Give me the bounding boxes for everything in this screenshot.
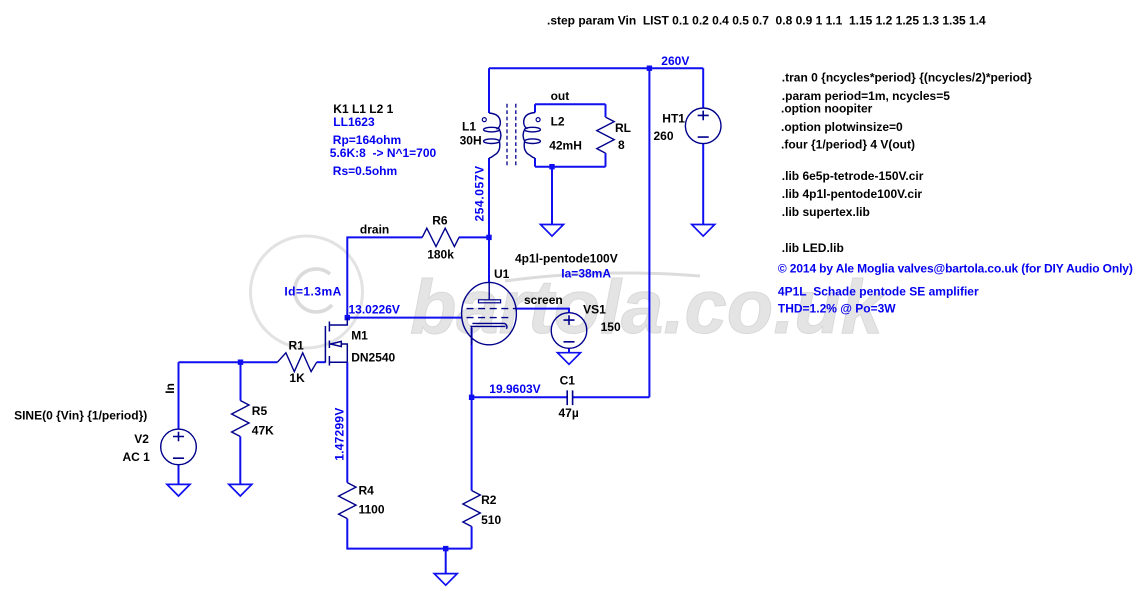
svg-text:260V: 260V	[661, 54, 689, 68]
svg-text:VS1: VS1	[583, 302, 606, 316]
svg-text:Ia=38mA: Ia=38mA	[561, 266, 611, 280]
svg-text:510: 510	[481, 513, 501, 527]
svg-text:150: 150	[601, 320, 621, 334]
svg-text:DN2540: DN2540	[351, 351, 395, 365]
svg-text:.four {1/period} 4 V(out): .four {1/period} 4 V(out)	[781, 138, 915, 152]
svg-text:R6: R6	[432, 214, 448, 228]
svg-text:M1: M1	[351, 328, 368, 342]
svg-text:R5: R5	[252, 404, 268, 418]
svg-text:180k: 180k	[427, 248, 454, 262]
svg-text:.tran 0 {ncycles*period} {(ncy: .tran 0 {ncycles*period} {(ncycles/2)*pe…	[782, 71, 1032, 85]
svg-text:SINE(0 {Vin} {1/period}): SINE(0 {Vin} {1/period})	[14, 408, 147, 422]
svg-text:In: In	[163, 383, 177, 394]
svg-text:Id=1.3mA: Id=1.3mA	[284, 285, 341, 299]
svg-text:.option noopiter: .option noopiter	[781, 101, 873, 115]
svg-text:19.9603V: 19.9603V	[489, 382, 540, 396]
svg-text:1K: 1K	[289, 371, 305, 385]
svg-text:drain: drain	[360, 222, 389, 236]
svg-text:HT1: HT1	[662, 112, 685, 126]
svg-text:R1: R1	[289, 339, 305, 353]
svg-text:LL1623: LL1623	[333, 115, 375, 129]
svg-text:L2: L2	[551, 115, 565, 129]
svg-text:AC 1: AC 1	[123, 450, 151, 464]
svg-text:4p1l-pentode100V: 4p1l-pentode100V	[515, 251, 618, 265]
svg-text:Rs=0.5ohm: Rs=0.5ohm	[333, 164, 397, 178]
svg-text:C1: C1	[560, 373, 576, 387]
svg-text:THD=1.2% @ Po=3W: THD=1.2% @ Po=3W	[778, 301, 896, 315]
svg-text:260: 260	[654, 129, 674, 143]
svg-text:47µ: 47µ	[559, 406, 579, 420]
svg-text:47K: 47K	[252, 423, 274, 437]
svg-text:.lib 6e5p-tetrode-150V.cir: .lib 6e5p-tetrode-150V.cir	[782, 169, 924, 183]
svg-text:42mH: 42mH	[549, 139, 582, 153]
svg-text:.lib supertex.lib: .lib supertex.lib	[782, 205, 870, 219]
svg-text:13.0226V: 13.0226V	[349, 303, 400, 317]
svg-text:5.6K:8 -> N^1=700: 5.6K:8 -> N^1=700	[330, 146, 437, 160]
svg-text:L1: L1	[462, 120, 476, 134]
svg-text:© 2014 by Ale Moglia valves@ba: © 2014 by Ale Moglia valves@bartola.co.u…	[778, 262, 1133, 276]
svg-text:1100: 1100	[359, 503, 385, 517]
svg-text:30H: 30H	[460, 133, 482, 147]
svg-text:.step param Vin LIST 0.1 0.2: .step param Vin LIST 0.1 0.2 0.4 0.5 0.7…	[547, 14, 986, 28]
svg-text:RL: RL	[615, 121, 631, 135]
svg-text:.lib LED.lib: .lib LED.lib	[782, 241, 844, 255]
svg-text:4P1L Schade pentode SE amplif: 4P1L Schade pentode SE amplifier	[778, 285, 979, 299]
svg-text:254.057V: 254.057V	[473, 165, 487, 221]
svg-text:out: out	[551, 89, 570, 103]
svg-text:V2: V2	[134, 432, 149, 446]
svg-text:R2: R2	[481, 493, 497, 507]
svg-text:U1: U1	[494, 267, 510, 281]
svg-text:1.47299V: 1.47299V	[333, 407, 347, 460]
svg-text:screen: screen	[524, 293, 563, 307]
svg-text:R4: R4	[359, 484, 375, 498]
svg-text:.option plotwinsize=0: .option plotwinsize=0	[781, 120, 903, 134]
svg-text:8: 8	[618, 138, 625, 152]
svg-text:K1 L1 L2 1: K1 L1 L2 1	[333, 102, 393, 116]
svg-text:.lib 4p1l-pentode100V.cir: .lib 4p1l-pentode100V.cir	[782, 187, 923, 201]
